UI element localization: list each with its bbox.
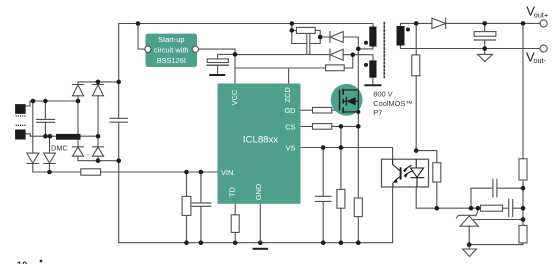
svg-text:ICL88xx: ICL88xx (243, 135, 278, 146)
svg-text:TD: TD (228, 187, 237, 197)
svg-text:GND: GND (254, 184, 263, 200)
svg-text:P7: P7 (373, 108, 382, 117)
svg-text:circuit with: circuit with (154, 46, 189, 55)
svg-text:VS: VS (286, 143, 296, 152)
svg-text:VCC: VCC (230, 89, 239, 105)
svg-text:10: 10 (17, 260, 28, 264)
svg-text:GD: GD (284, 106, 295, 115)
svg-text:BSS126I: BSS126I (157, 56, 186, 65)
svg-text:DMC: DMC (51, 143, 68, 152)
svg-text:VIN: VIN (221, 168, 233, 177)
svg-text:out-: out- (534, 56, 547, 65)
svg-text:ZCD: ZCD (283, 87, 292, 102)
svg-text:CS: CS (285, 122, 295, 131)
svg-text:800 V: 800 V (373, 90, 392, 99)
svg-text:CoolMOS™: CoolMOS™ (373, 99, 412, 108)
svg-text:Start-up: Start-up (158, 35, 184, 44)
svg-text:out+: out+ (534, 11, 548, 20)
